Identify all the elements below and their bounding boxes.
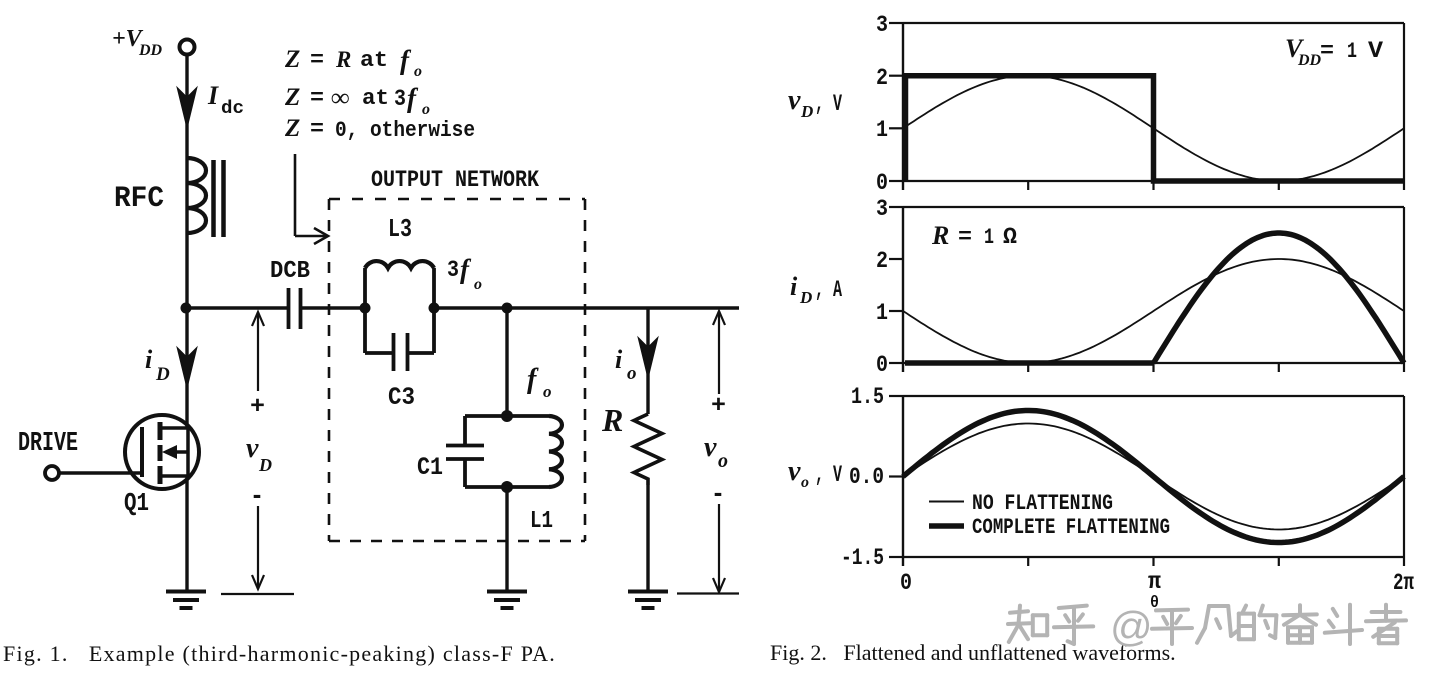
wire L3 to load bbox=[434, 306, 739, 309]
axis label vD,V bbox=[788, 85, 842, 121]
svg-text:D: D bbox=[799, 288, 812, 307]
svg-text:0: 0 bbox=[900, 570, 912, 596]
svg-text:+: + bbox=[250, 394, 265, 421]
label Q1 bbox=[124, 488, 149, 518]
annotation Z = inf at 3fo bbox=[284, 83, 430, 118]
node L3 left bbox=[360, 303, 371, 314]
svg-text:v: v bbox=[788, 456, 801, 487]
svg-text:DD: DD bbox=[1297, 52, 1322, 69]
svg-text:DCB: DCB bbox=[270, 258, 310, 285]
vD arrow lower bbox=[252, 506, 264, 589]
resistor R bbox=[634, 414, 662, 485]
svg-text:, V: , V bbox=[815, 462, 842, 488]
label +VDD bbox=[112, 26, 163, 59]
plot vD frame bbox=[889, 23, 1404, 190]
svg-text:=: = bbox=[310, 117, 324, 142]
iD sine curve bbox=[903, 259, 1404, 363]
watermark zhihu text bbox=[1008, 603, 1406, 650]
svg-text:o: o bbox=[543, 382, 552, 401]
svg-text:0: 0 bbox=[876, 352, 888, 378]
label DRIVE bbox=[18, 429, 78, 459]
svg-text:C3: C3 bbox=[388, 383, 415, 412]
label iD bbox=[145, 345, 170, 385]
legend COMPLETE FLATTENING bbox=[972, 515, 1170, 540]
label RFC bbox=[114, 182, 164, 216]
svg-text:2π: 2π bbox=[1393, 570, 1414, 596]
label R bbox=[601, 402, 623, 438]
svg-text:o: o bbox=[422, 101, 430, 118]
svg-text:Fig. 1. Example (third-harmo: Fig. 1. Example (third-harmonic-peaking)… bbox=[3, 641, 556, 666]
svg-text:Z: Z bbox=[284, 46, 300, 73]
capacitor C3 bbox=[365, 308, 434, 371]
svg-text:Ω: Ω bbox=[1003, 224, 1017, 250]
svg-text:RFC: RFC bbox=[114, 182, 164, 216]
svg-text:D: D bbox=[258, 455, 272, 475]
svg-text:C1: C1 bbox=[417, 453, 443, 482]
svg-text:o: o bbox=[718, 450, 728, 472]
svg-text:, A: , A bbox=[815, 277, 842, 303]
svg-text:2: 2 bbox=[876, 248, 888, 274]
svg-text:0: 0 bbox=[876, 170, 888, 196]
annotation Z = 0, otherwise bbox=[284, 115, 475, 143]
wire tank to ground bbox=[505, 487, 508, 591]
svg-text:D: D bbox=[155, 364, 170, 385]
svg-text:v: v bbox=[704, 432, 717, 463]
wire drive to gate bbox=[59, 471, 142, 474]
wire node to MOSFET drain bbox=[185, 308, 188, 428]
vD arrow upper bbox=[252, 312, 264, 391]
supply terminal +VDD bbox=[180, 40, 195, 55]
svg-text:f: f bbox=[407, 83, 419, 113]
inductor L3 bbox=[365, 261, 434, 308]
ground load bbox=[628, 592, 668, 609]
svg-text:R: R bbox=[601, 402, 623, 438]
vo arrow lower bbox=[713, 504, 725, 592]
svg-text:Z: Z bbox=[284, 84, 300, 111]
svg-text:COMPLETE FLATTENING: COMPLETE FLATTENING bbox=[972, 515, 1170, 540]
svg-text:f: f bbox=[400, 45, 412, 75]
legend bold sample bbox=[929, 523, 964, 529]
annotation arrow to network bbox=[295, 154, 328, 244]
svg-text:Q1: Q1 bbox=[124, 488, 149, 518]
label + vo - bbox=[704, 393, 728, 509]
legend NO FLATTENING bbox=[972, 491, 1113, 516]
svg-text:i: i bbox=[790, 272, 798, 301]
svg-text:DD: DD bbox=[138, 42, 163, 59]
svg-text:o: o bbox=[474, 276, 482, 293]
svg-text:-1.5: -1.5 bbox=[841, 545, 884, 571]
label io bbox=[615, 345, 637, 384]
caption figure 1 bbox=[3, 641, 556, 666]
svg-text:Z: Z bbox=[284, 115, 300, 142]
svg-text:@: @ bbox=[1110, 603, 1153, 650]
tank top wire bbox=[465, 414, 549, 418]
svg-text:1: 1 bbox=[984, 225, 994, 250]
plot vD y labels bbox=[876, 12, 888, 196]
svg-text:1: 1 bbox=[1347, 39, 1357, 64]
svg-text:π: π bbox=[1148, 569, 1161, 595]
svg-text:i: i bbox=[615, 345, 623, 374]
axis label iD,A bbox=[790, 272, 842, 307]
transistor Q1 bbox=[125, 415, 199, 489]
vo bold sine bbox=[903, 411, 1404, 543]
wire node to tank bbox=[505, 308, 508, 416]
svg-text:f: f bbox=[527, 364, 539, 395]
svg-text:i: i bbox=[145, 345, 153, 374]
svg-text:at: at bbox=[360, 48, 388, 73]
svg-text:L1: L1 bbox=[530, 508, 553, 535]
wire source to ground bbox=[185, 476, 188, 591]
svg-text:I: I bbox=[207, 81, 219, 110]
svg-text:at: at bbox=[362, 86, 389, 111]
axis label vo,V bbox=[788, 456, 842, 491]
annotation Z = R at fo bbox=[284, 45, 422, 80]
x axis labels bbox=[900, 569, 1414, 613]
svg-text:, V: , V bbox=[815, 91, 842, 117]
svg-text:o: o bbox=[414, 63, 422, 80]
ground source bbox=[166, 592, 206, 609]
label C1 bbox=[417, 453, 443, 482]
label C3 bbox=[388, 383, 415, 412]
svg-text:v: v bbox=[788, 85, 801, 116]
inductor L1 bbox=[549, 416, 562, 487]
svg-text:3: 3 bbox=[394, 86, 406, 112]
label L1 bbox=[530, 508, 553, 535]
label 3fo bbox=[447, 254, 482, 293]
label OUTPUT NETWORK bbox=[371, 167, 539, 193]
svg-text:DRIVE: DRIVE bbox=[18, 429, 78, 459]
svg-text:V: V bbox=[1368, 38, 1383, 64]
annotation R = 1 ohm bbox=[931, 221, 1017, 250]
capacitor DCB bbox=[289, 288, 301, 329]
node output bbox=[502, 303, 513, 314]
svg-text:3: 3 bbox=[447, 257, 459, 283]
svg-text:OUTPUT NETWORK: OUTPUT NETWORK bbox=[371, 167, 539, 193]
svg-text:R: R bbox=[931, 221, 949, 250]
label L3 bbox=[388, 214, 412, 244]
vo arrow upper bbox=[713, 311, 725, 394]
label fo bbox=[527, 364, 552, 401]
svg-text:0, otherwise: 0, otherwise bbox=[335, 118, 475, 143]
vo thin sine bbox=[903, 424, 1404, 530]
wire to resistor bbox=[646, 308, 649, 414]
svg-text:=: = bbox=[1320, 39, 1334, 64]
output network dashed box bbox=[329, 199, 585, 541]
svg-text:v: v bbox=[246, 433, 259, 464]
node tank top bbox=[501, 410, 513, 422]
svg-text:3: 3 bbox=[876, 196, 888, 222]
node L3 right bbox=[429, 303, 440, 314]
svg-text:o: o bbox=[627, 363, 637, 384]
svg-text:=: = bbox=[310, 86, 324, 111]
iD half sine bold bbox=[1154, 233, 1405, 363]
drive terminal bbox=[45, 466, 59, 480]
svg-text:3: 3 bbox=[876, 12, 888, 38]
wire DCB to L3 bbox=[301, 306, 365, 309]
current arrow io bbox=[639, 339, 657, 376]
tank bottom wire bbox=[465, 485, 549, 489]
vD square wave bbox=[906, 76, 1405, 181]
plot vo y labels bbox=[841, 384, 884, 571]
caption figure 2 bbox=[770, 640, 1176, 665]
label + vD - bbox=[246, 394, 272, 511]
plot iD frame bbox=[889, 207, 1404, 372]
wire resistor to ground bbox=[646, 485, 649, 591]
svg-text:∞: ∞ bbox=[331, 83, 350, 112]
capacitor C1 bbox=[446, 416, 484, 487]
svg-text:D: D bbox=[800, 102, 813, 121]
svg-text:1: 1 bbox=[876, 300, 888, 326]
vD sine curve bbox=[903, 76, 1404, 181]
wire node to DCB bbox=[186, 306, 288, 309]
label Idc bbox=[207, 81, 244, 119]
node tank bottom bbox=[501, 481, 513, 493]
svg-text:=: = bbox=[958, 225, 972, 250]
svg-text:dc: dc bbox=[221, 99, 244, 119]
ground tank bbox=[487, 592, 527, 609]
current arrow iD bbox=[178, 349, 196, 386]
svg-text:1: 1 bbox=[876, 117, 888, 143]
vD reference line bbox=[221, 593, 294, 595]
label DCB bbox=[270, 258, 310, 285]
svg-text:R: R bbox=[335, 47, 351, 72]
current arrow Idc bbox=[178, 89, 196, 126]
svg-text:+: + bbox=[711, 393, 726, 420]
svg-text:0.0: 0.0 bbox=[849, 464, 884, 490]
svg-text:1.5: 1.5 bbox=[851, 384, 884, 410]
annotation VDD = 1 V bbox=[1285, 34, 1383, 69]
svg-text:=: = bbox=[310, 48, 324, 73]
legend thin sample bbox=[929, 501, 964, 503]
iD zero segment bold bbox=[905, 360, 1154, 366]
vo reference line bbox=[677, 592, 739, 594]
svg-text:NO FLATTENING: NO FLATTENING bbox=[972, 491, 1113, 516]
plot vo frame bbox=[889, 396, 1404, 566]
inductor RFC bbox=[187, 158, 224, 237]
svg-text:f: f bbox=[460, 254, 472, 284]
plot iD y labels bbox=[876, 196, 888, 378]
wire supply to node bbox=[185, 55, 188, 308]
svg-text:2: 2 bbox=[876, 65, 888, 91]
svg-text:L3: L3 bbox=[388, 214, 412, 244]
node A (drain node) bbox=[181, 303, 192, 314]
svg-text:o: o bbox=[801, 474, 809, 491]
